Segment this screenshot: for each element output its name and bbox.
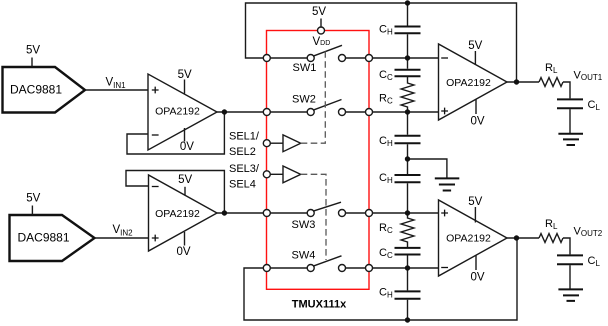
dashed control line SW1/SW2: [301, 52, 326, 144]
switch SW2: [263, 94, 438, 116]
A3 pin -: [441, 57, 448, 59]
TMUX111x box: [267, 31, 370, 290]
junction SW2 node: [405, 109, 410, 114]
A1 pin -: [152, 134, 159, 136]
junction A1 output: [222, 109, 227, 114]
ground (CL2): [558, 289, 583, 301]
op-amp A4 (OPA2192 output 2): [439, 200, 508, 276]
ground (CL1): [558, 134, 583, 145]
junction A3 output: [514, 79, 519, 84]
DAC U1 (DAC9881 top): [3, 67, 86, 113]
svg-text:5V: 5V: [26, 193, 40, 205]
A3 5V supply: [468, 40, 482, 65]
A2 0V supply: [176, 232, 190, 258]
VDD 5V supply: [312, 6, 326, 27]
wire VIN1: [85, 89, 148, 91]
A4 pin -: [441, 267, 448, 269]
wire VIN2: [95, 237, 149, 239]
A2 pin +: [152, 235, 159, 242]
resistor RC2: [379, 213, 414, 247]
resistor RL1: [539, 62, 563, 86]
svg-text:SW3: SW3: [292, 219, 316, 231]
buffer B2 (SEL3/SEL4 driver): [263, 166, 300, 183]
svg-text:0V: 0V: [470, 272, 484, 284]
resistor RL2: [539, 218, 563, 242]
op-amp A2 (OPA2192 input buffer 2): [149, 175, 218, 251]
pin VDD: [313, 27, 331, 48]
A1 5V supply: [178, 69, 192, 94]
switch SW3: [263, 202, 438, 231]
A4 pin +: [441, 210, 448, 217]
A2 pin -: [152, 186, 159, 188]
capacitor CC1: [379, 58, 421, 82]
op-amp A3 (OPA2192 output 1): [439, 44, 508, 120]
capacitor CC2: [379, 247, 421, 268]
A1 pin +: [152, 87, 159, 94]
capacitor CL2: [557, 255, 600, 289]
svg-text:SW1: SW1: [293, 62, 317, 74]
feedback rail from OPA2 output to SW4: [244, 238, 517, 320]
capacitor CH3: [379, 159, 421, 213]
A4 5V supply: [468, 196, 482, 223]
A3 0V supply: [470, 99, 484, 127]
svg-text:SEL3/: SEL3/: [229, 163, 260, 175]
resistor RC1: [379, 77, 414, 112]
wire to VOUT1: [563, 82, 570, 98]
A4 0V supply: [470, 255, 484, 283]
svg-text:SEL2: SEL2: [229, 146, 256, 158]
junction top rail / CH1: [405, 0, 410, 5]
svg-text:5V: 5V: [468, 196, 482, 208]
svg-text:5V: 5V: [312, 6, 326, 18]
svg-text:OPA2192: OPA2192: [446, 77, 491, 89]
op-amp A1 (OPA2192 input buffer 1): [148, 74, 217, 150]
svg-text:5V: 5V: [468, 40, 482, 52]
A1 0V supply: [180, 128, 194, 153]
junction SW4 node: [405, 265, 410, 270]
DAC U2 (DAC9881 bottom): [10, 215, 95, 261]
svg-text:SW4: SW4: [292, 250, 316, 262]
capacitor CH2: [379, 112, 421, 159]
svg-text:DAC9881: DAC9881: [10, 83, 62, 97]
feedback rail from OPA1 output to SW1: [246, 3, 517, 82]
switch SW4: [263, 250, 438, 272]
SEL1/SEL2 label: [229, 131, 260, 159]
svg-text:OPA2192: OPA2192: [155, 208, 200, 220]
svg-text:DAC9881: DAC9881: [17, 231, 69, 245]
svg-text:0V: 0V: [180, 141, 194, 153]
junction A2 output: [222, 210, 227, 215]
svg-text:SEL4: SEL4: [229, 179, 256, 191]
wire A2 output to SW3: [217, 212, 263, 214]
svg-text:TMUX111x: TMUX111x: [292, 299, 347, 311]
ground (mid reference): [408, 159, 460, 191]
capacitor CH4: [379, 268, 421, 320]
A2 feedback wire: [126, 171, 224, 214]
buffer B1 (SEL1/SEL2 driver): [263, 135, 300, 152]
dashed control line SW3/SW4: [301, 174, 326, 260]
svg-text:0V: 0V: [470, 116, 484, 128]
svg-text:SEL1/: SEL1/: [229, 131, 260, 143]
A1 feedback wire: [127, 112, 224, 154]
svg-text:SW2: SW2: [292, 94, 316, 106]
capacitor CH1 (top): [379, 3, 421, 58]
svg-text:5V: 5V: [178, 174, 192, 186]
svg-text:0V: 0V: [176, 246, 190, 258]
svg-text:OPA2192: OPA2192: [446, 233, 491, 245]
junction SW1 node: [405, 55, 410, 60]
svg-text:5V: 5V: [26, 45, 40, 57]
svg-text:OPA2192: OPA2192: [155, 106, 200, 118]
wire A4 output: [507, 237, 539, 239]
U2 5V supply lead: [26, 193, 40, 215]
junction mid ground node: [405, 156, 410, 161]
wire A1 output to SW2: [217, 111, 263, 113]
junction bottom rail / CH4: [405, 317, 410, 322]
junction A4 output: [514, 235, 519, 240]
switch SW1: [263, 45, 438, 74]
wire to VOUT2: [563, 238, 570, 254]
junction SW3 node: [405, 210, 410, 215]
SEL3/SEL4 label: [229, 163, 260, 191]
A3 pin +: [441, 108, 448, 115]
capacitor CL1: [557, 99, 600, 134]
U1 5V supply lead: [26, 45, 40, 67]
wire A3 output: [507, 81, 539, 83]
svg-text:5V: 5V: [178, 69, 192, 81]
A2 5V supply: [178, 174, 192, 196]
